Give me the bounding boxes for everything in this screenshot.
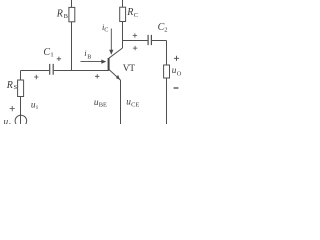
svg-text:C: C	[104, 27, 108, 34]
transistor VT base bar	[108, 58, 110, 71]
svg-text:CE: CE	[131, 101, 139, 108]
svg-text:i: i	[36, 104, 38, 111]
wire output vertical top	[166, 41, 168, 66]
wire C2 to output corner	[152, 40, 167, 42]
svg-text:B: B	[87, 54, 91, 61]
svg-text:C: C	[134, 12, 138, 19]
wire emitter vertical	[120, 80, 122, 124]
minus u_O	[174, 87, 179, 89]
svg-text:R: R	[56, 8, 63, 19]
plus u_s	[10, 106, 15, 111]
plus C2	[133, 33, 137, 37]
plus C1	[57, 57, 61, 61]
arrow i_B	[81, 60, 107, 64]
plus u_CE	[133, 46, 137, 50]
wire R_S top	[20, 71, 22, 81]
wire R_C bottom (collector vertical)	[122, 22, 124, 49]
resistor R_S	[18, 80, 24, 97]
wire R_B top	[71, 0, 73, 7]
capacitor C1	[50, 64, 54, 75]
resistor R_B	[69, 7, 75, 21]
plus u_O	[174, 56, 179, 61]
resistor R_C	[120, 7, 126, 21]
svg-text:s: s	[9, 121, 12, 124]
wire emitter diagonal	[109, 69, 120, 80]
wire collector node to C2	[123, 40, 148, 42]
resistor load	[164, 65, 170, 78]
wire R_B bottom to base node	[71, 22, 73, 71]
svg-text:R: R	[126, 7, 133, 18]
source u_s circle	[15, 115, 27, 127]
svg-text:VT: VT	[123, 64, 135, 74]
svg-text:2: 2	[164, 26, 167, 33]
svg-text:O: O	[177, 70, 182, 77]
wire output bottom	[166, 78, 168, 124]
svg-text:S: S	[14, 84, 18, 91]
svg-text:C: C	[43, 47, 50, 58]
svg-text:BE: BE	[99, 101, 107, 108]
wire R_C top	[122, 0, 124, 7]
transistor emitter arrowhead	[116, 75, 120, 80]
svg-text:B: B	[64, 13, 69, 20]
wire R_S bottom	[20, 97, 22, 125]
svg-text:R: R	[6, 80, 13, 91]
wire collector diagonal into transistor	[109, 48, 123, 58]
capacitor C2	[148, 35, 151, 45]
wire base	[54, 70, 109, 72]
plus u_BE	[95, 74, 99, 78]
plus u_i	[34, 75, 38, 79]
svg-text:1: 1	[50, 52, 53, 59]
wire input to C1	[21, 70, 50, 72]
arrow i_C	[109, 29, 113, 55]
